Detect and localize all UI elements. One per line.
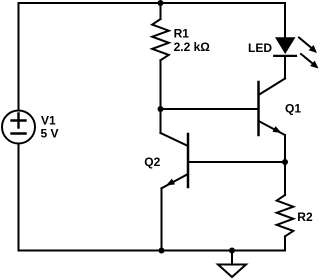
wire LED anode lead (284, 3, 286, 37)
wire left rail lower (18, 144, 20, 251)
wire top rail (19, 2, 286, 4)
svg-text:2.2 kΩ: 2.2 kΩ (174, 40, 211, 54)
wire left rail upper (18, 3, 20, 111)
svg-text:LED: LED (248, 41, 272, 55)
svg-text:R1: R1 (174, 27, 190, 41)
wire bottom rail (19, 250, 286, 252)
transistor Q1 (259, 79, 286, 136)
resistor R1 (152, 19, 169, 60)
wire Q2 emitter down (161, 189, 163, 251)
node ground junction (229, 248, 235, 254)
transistor Q2 (161, 133, 189, 188)
node Q1 emitter / Q2 base / R2 junction (282, 159, 288, 165)
node R1 bottom / Q1 base junction (158, 106, 164, 112)
wire R2 top lead (284, 162, 286, 195)
wire Q1 emitter down (284, 135, 286, 162)
resistor R2 (277, 195, 294, 236)
wire Q2 base (188, 161, 285, 163)
svg-text:5 V: 5 V (41, 127, 59, 141)
voltage source V1 (2, 111, 35, 144)
ground (218, 251, 246, 278)
wire R1 bottom lead (160, 60, 162, 109)
svg-text:Q1: Q1 (285, 102, 301, 116)
svg-text:R2: R2 (297, 210, 313, 224)
svg-text:V1: V1 (41, 114, 56, 128)
wire R1 top lead (160, 3, 162, 19)
wire R2 bottom lead (284, 236, 286, 250)
wire LED cathode to Q1 collector (284, 56, 286, 79)
svg-text:Q2: Q2 (144, 155, 160, 169)
wire Q1 base (161, 108, 259, 110)
LED D1 (274, 37, 318, 68)
wire Q2 collector up (160, 109, 162, 133)
node R1 top junction (158, 0, 164, 6)
node Q2 emitter / bottom rail junction (159, 248, 165, 254)
